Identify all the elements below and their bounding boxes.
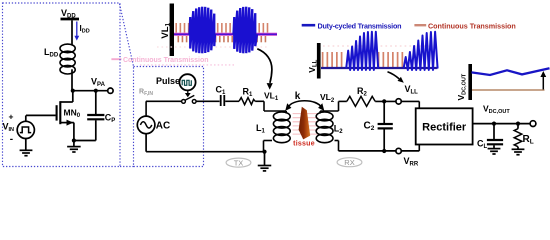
svg-text:-: -: [10, 134, 13, 145]
svg-text:k: k: [295, 91, 301, 102]
svg-text:TX: TX: [234, 158, 244, 167]
svg-text:RX: RX: [344, 158, 354, 167]
svg-text:Continuous Transmission: Continuous Transmission: [123, 57, 209, 64]
svg-text:Continuous Transmission: Continuous Transmission: [428, 21, 516, 30]
svg-text:AC: AC: [156, 120, 170, 131]
svg-text:tissue: tissue: [293, 141, 315, 148]
svg-text:Rectifier: Rectifier: [422, 122, 467, 134]
svg-text:Duty-cycled Transmission: Duty-cycled Transmission: [318, 21, 402, 30]
svg-text:+: +: [9, 112, 14, 122]
svg-text:Pulse: Pulse: [156, 76, 180, 86]
